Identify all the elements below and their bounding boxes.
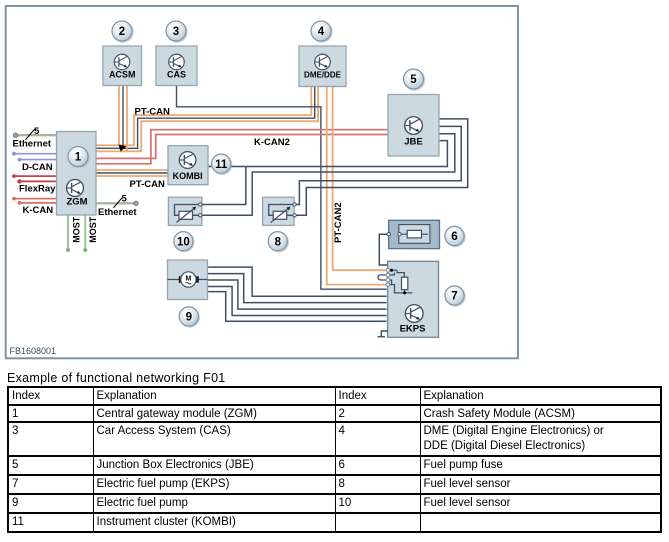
index ball 7 (445, 286, 466, 307)
svg-text:PT-CAN: PT-CAN (130, 179, 166, 190)
wire pump line 4 (208, 287, 387, 316)
box JBE (388, 95, 439, 157)
svg-text:M: M (185, 275, 191, 282)
wire pump line 2 (208, 274, 387, 303)
svg-text:6: 6 (451, 231, 457, 243)
wire PT-CAN to KOMBI navy (96, 172, 168, 174)
svg-text:11: 11 (215, 159, 228, 171)
wire PT-CAN to KOMBI orange (96, 169, 168, 171)
wire K-CAN2 red 1 (96, 135, 388, 159)
bus width marker 5 left (26, 129, 35, 140)
svg-text:DME/DDE: DME/DDE (304, 71, 342, 80)
wire FlexRay 1 (14, 175, 57, 177)
wire pump line 5 (208, 292, 387, 322)
index ball 4 (311, 21, 333, 43)
sensor box 8 (263, 197, 297, 225)
junction arrow PT-CAN (119, 145, 127, 152)
svg-text:MOST: MOST (71, 216, 81, 243)
fuse box 6 (387, 220, 440, 248)
bus width marker 5 right (114, 198, 123, 208)
pump box 9 (168, 260, 208, 300)
wire FlexRay 2 (20, 180, 57, 182)
wire CAS to EKPS navy (177, 86, 387, 290)
wire JBE loop 1 to KOMBI (208, 141, 447, 167)
svg-text:MOST: MOST (88, 216, 98, 243)
svg-text:CAS: CAS (167, 70, 186, 80)
svg-text:KOMBI: KOMBI (173, 171, 203, 181)
wire PT-CAN navy B (96, 86, 315, 148)
box ACSM (103, 46, 142, 86)
sensor box 10 (168, 197, 202, 225)
wire MOST 1 (67, 215, 69, 250)
wire ACSM drop orange (118, 86, 120, 146)
box CAS (156, 46, 197, 86)
wire Ethernet left (16, 134, 57, 136)
wire K-CAN 1 (14, 198, 57, 200)
box DME/DDE (299, 46, 346, 87)
box KOMBI (168, 146, 208, 185)
EKPS terminals (386, 268, 390, 272)
wire PT-CAN2 orange east (333, 86, 387, 270)
svg-text:JBE: JBE (404, 137, 422, 148)
wire ACSM drop orange2 (126, 86, 128, 152)
wire MOST 2 (84, 215, 86, 250)
index ball 10 (174, 232, 195, 253)
index ball 1 (68, 147, 90, 169)
index ball 11 (212, 154, 233, 175)
svg-text:7: 7 (451, 291, 457, 303)
wire PT-CAN orange A (ZGM to DME/DDE) (96, 86, 311, 145)
svg-text:FB1608001: FB1608001 (10, 346, 57, 356)
EKPS junction dots (390, 269, 393, 272)
svg-text:K-CAN: K-CAN (23, 205, 54, 216)
EKPS internal wiring (378, 270, 413, 293)
wire K-CAN2 red 2 (96, 130, 388, 164)
svg-text:Ethernet: Ethernet (13, 139, 52, 150)
wire fuse to EKPS (379, 234, 387, 265)
svg-text:10: 10 (177, 236, 190, 248)
svg-text:ZGM: ZGM (66, 197, 87, 208)
svg-text:3: 3 (173, 26, 179, 38)
svg-text:PT-CAN: PT-CAN (135, 107, 171, 118)
ground EKPS (378, 331, 388, 337)
index ball 5 (404, 69, 426, 91)
box EKPS (388, 261, 439, 337)
connector dot Ethernet left (13, 133, 17, 137)
svg-text:K-CAN2: K-CAN2 (254, 137, 290, 148)
wire D-CAN 2 (20, 159, 57, 161)
wire PT-CAN to KOMBI orange2 (96, 175, 168, 177)
svg-text:ACSM: ACSM (109, 70, 136, 80)
svg-text:Ethernet: Ethernet (98, 207, 137, 218)
wire JBE loop 4 to sensor8 lower (296, 119, 468, 215)
svg-text:8: 8 (275, 236, 282, 248)
svg-text:2: 2 (119, 26, 125, 38)
wire PT-CAN2 orange west (327, 86, 387, 284)
svg-text:EKPS: EKPS (400, 324, 426, 335)
wire riser to sensor10 upper (202, 167, 246, 205)
wire JBE loop 2 to sensor10 lower (202, 134, 455, 216)
svg-text:9: 9 (186, 312, 192, 324)
wire pump line 3 (208, 280, 387, 309)
index ball 2 (112, 21, 134, 43)
index ball 3 (166, 21, 188, 43)
svg-text:D-CAN: D-CAN (22, 162, 53, 173)
box ZGM (57, 132, 97, 216)
wire K-CAN 2 (20, 202, 57, 204)
wire PT-CAN orange C (96, 86, 318, 151)
wire Ethernet right (96, 202, 136, 204)
svg-text:1: 1 (75, 152, 82, 164)
svg-text:FlexRay: FlexRay (19, 184, 56, 195)
index ball 8 (268, 232, 289, 253)
svg-text:PT-CAN2: PT-CAN2 (333, 202, 344, 243)
index ball 6 (445, 226, 466, 247)
svg-text:5: 5 (410, 74, 417, 86)
wire D-CAN 1 (14, 153, 57, 155)
index ball 9 (179, 307, 200, 328)
wire ACSM drop navy (122, 86, 124, 149)
wire JBE loop 3 to sensor8 upper (296, 126, 461, 204)
wire pump line 1 (208, 267, 387, 296)
svg-text:5: 5 (122, 194, 128, 205)
EKPS resistor (402, 277, 408, 289)
svg-text:5: 5 (34, 126, 40, 137)
connector dot Ethernet right (134, 201, 138, 205)
svg-text:4: 4 (318, 26, 325, 38)
